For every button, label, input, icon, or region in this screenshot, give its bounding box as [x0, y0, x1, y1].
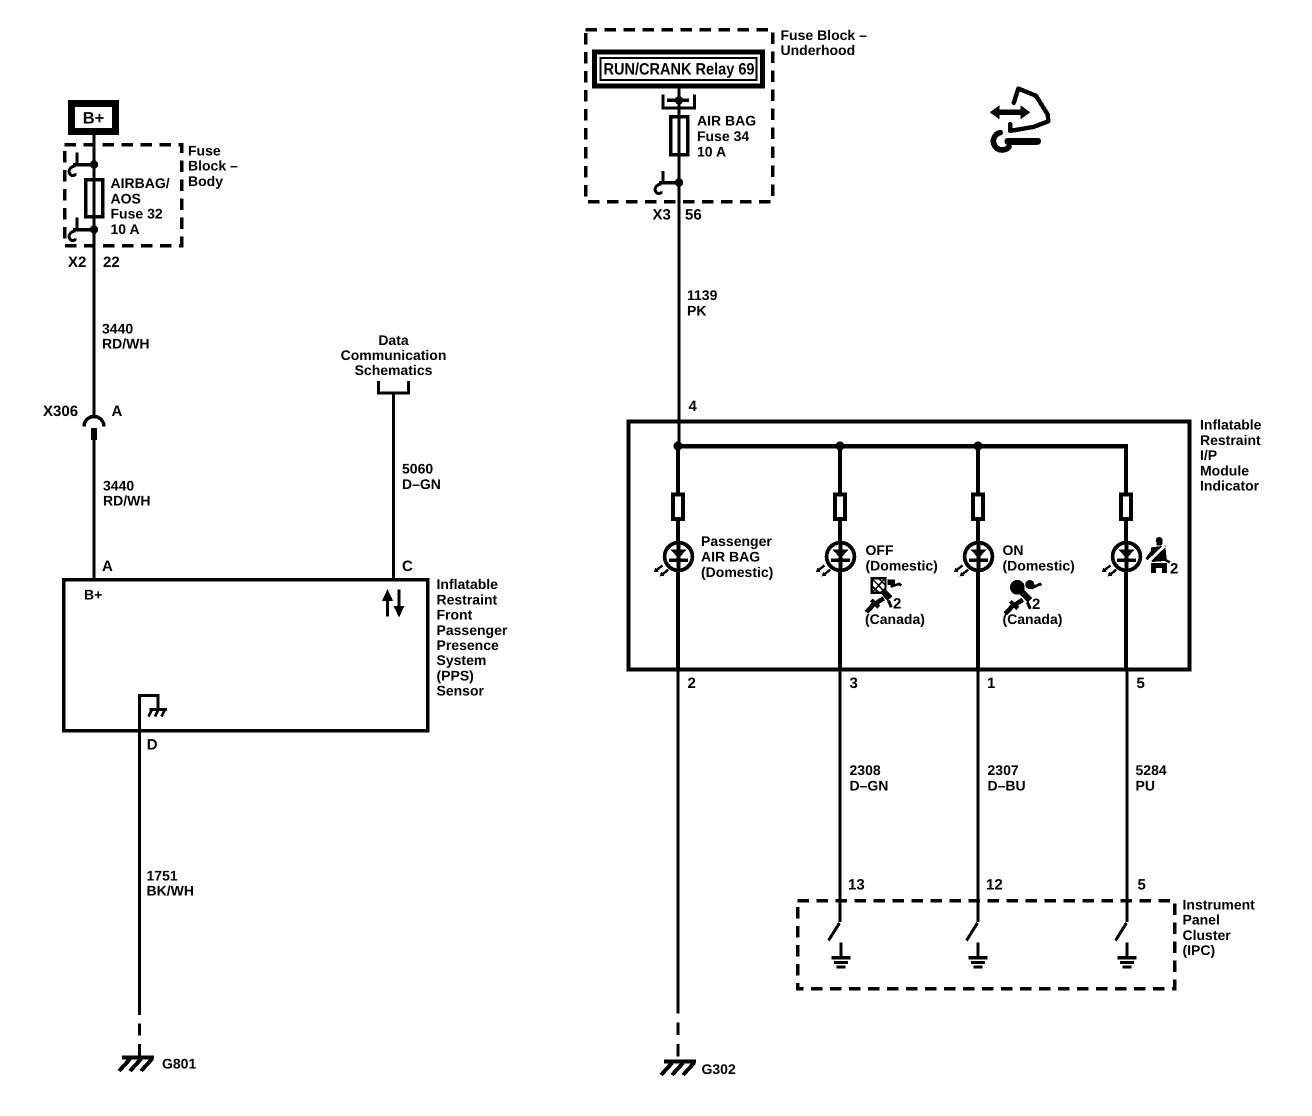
svg-text:AIRBAG/: AIRBAG/	[111, 175, 170, 191]
label ON (Domestic)	[1003, 542, 1075, 574]
svg-text:3440: 3440	[102, 320, 133, 336]
svg-text:(Domestic): (Domestic)	[1003, 558, 1075, 574]
label Passenger AIR BAG (Domestic)	[701, 533, 773, 580]
fuse F34 AIR BAG 10 A	[671, 117, 688, 155]
svg-text:Sensor: Sensor	[437, 683, 485, 699]
wire fuse 34 to X3	[677, 153, 680, 202]
svg-text:3440: 3440	[103, 477, 134, 493]
wire 5284 PU	[1126, 671, 1129, 900]
svg-text:Data: Data	[378, 332, 409, 348]
ground G801	[119, 1056, 196, 1072]
fuse holder clip top (Fuse 34)	[662, 95, 697, 110]
svg-text:(Domestic): (Domestic)	[701, 564, 773, 580]
wire 1751 BK/WH	[138, 731, 141, 1003]
svg-text:X306: X306	[43, 403, 78, 420]
LED indicator lamp (branch 2)	[816, 541, 855, 576]
svg-text:Underhood: Underhood	[781, 42, 856, 58]
svg-text:AOS: AOS	[111, 190, 141, 206]
instrument panel cluster box (dashed)	[798, 901, 1175, 989]
svg-text:PK: PK	[687, 302, 706, 318]
svg-text:12: 12	[986, 876, 1003, 893]
svg-text:D–BU: D–BU	[988, 777, 1026, 793]
svg-text:G801: G801	[162, 1056, 196, 1072]
svg-text:1139: 1139	[687, 287, 718, 303]
svg-text:System: System	[437, 652, 487, 668]
fuse clip bottom (Fuse 32)	[69, 218, 98, 241]
resistor (branch 2)	[835, 494, 845, 519]
svg-text:Schematics: Schematics	[355, 362, 433, 378]
airbag-on pictograph (Canada) branch 3	[1005, 580, 1041, 614]
svg-text:RD/WH: RD/WH	[103, 493, 150, 509]
svg-text:D: D	[147, 737, 158, 754]
svg-text:B+: B+	[83, 110, 105, 128]
driver switch to ground (pin 13)	[829, 900, 851, 967]
svg-text:10 A: 10 A	[697, 144, 726, 160]
battery feed B+ symbol	[72, 104, 116, 132]
fuse block underhood (dashed outline)	[586, 30, 773, 202]
service manual icon (hand with wrench)	[990, 89, 1048, 150]
branch wire 1 (bus to pin 2)	[676, 446, 680, 671]
svg-text:RUN/CRANK Relay 69: RUN/CRANK Relay 69	[604, 61, 755, 79]
svg-text:Module: Module	[1200, 462, 1249, 478]
svg-text:RD/WH: RD/WH	[102, 336, 149, 352]
wire 3440 RD/WH (lower segment)	[93, 440, 96, 579]
svg-text:Restraint: Restraint	[437, 591, 498, 607]
svg-text:A: A	[102, 558, 113, 575]
label OFF (Domestic)	[866, 542, 938, 574]
fuse clip bottom (Fuse 34)	[655, 171, 683, 194]
LED indicator lamp (branch 4)	[1102, 541, 1141, 576]
svg-text:Passenger: Passenger	[701, 533, 772, 549]
svg-text:X3: X3	[653, 206, 671, 223]
svg-text:Passenger: Passenger	[437, 622, 508, 638]
svg-text:(IPC): (IPC)	[1183, 942, 1216, 958]
svg-text:BK/WH: BK/WH	[147, 883, 194, 899]
svg-text:Communication: Communication	[341, 347, 447, 363]
connector X3 pin 56	[653, 206, 702, 223]
wire 2308 D-GN	[839, 671, 842, 900]
branch wire 4 (bus corner to pin 5)	[1124, 444, 1128, 671]
svg-text:AIR BAG: AIR BAG	[701, 549, 760, 565]
connector X2 pin 22	[68, 254, 120, 271]
internal supply bus	[678, 444, 1126, 449]
svg-text:OFF: OFF	[866, 542, 894, 558]
svg-text:I/P: I/P	[1200, 447, 1217, 463]
svg-text:G302: G302	[702, 1061, 736, 1077]
label Inflatable Restraint Front Passenger Presence System (PPS) Sensor	[437, 576, 508, 698]
svg-text:X2: X2	[68, 254, 86, 271]
data communication schematics callout	[341, 332, 447, 393]
seat belt pictograph branch 4	[1147, 537, 1179, 577]
svg-text:Front: Front	[437, 607, 473, 623]
node junction branch2	[836, 442, 845, 451]
wire 2307 D-BU	[977, 671, 980, 900]
resistor (branch 4)	[1121, 494, 1131, 519]
airbag-off pictograph (Canada) branch 2	[866, 578, 901, 612]
wire B+ to fuse block body	[93, 135, 96, 165]
svg-text:Restraint: Restraint	[1200, 432, 1261, 448]
svg-text:Panel: Panel	[1183, 912, 1220, 928]
svg-text:10 A: 10 A	[111, 221, 140, 237]
svg-text:2: 2	[1170, 560, 1178, 577]
svg-text:1: 1	[987, 675, 995, 692]
wire 3440 RD/WH (upper segment)	[93, 230, 96, 417]
wire pin 2 to G302	[676, 671, 679, 1001]
svg-text:(Canada): (Canada)	[865, 611, 925, 627]
serial data arrows (up/down)	[382, 589, 405, 618]
wire 1139 PK	[677, 202, 680, 446]
svg-text:4: 4	[689, 398, 698, 415]
svg-text:5284: 5284	[1136, 762, 1167, 778]
branch wire 2 (bus to pin 3)	[838, 446, 842, 671]
wire relay to fuse 34	[677, 89, 680, 118]
svg-text:AIR BAG: AIR BAG	[697, 113, 756, 129]
driver switch to ground (pin 5)	[1116, 900, 1137, 967]
driver switch to ground (pin 12)	[967, 900, 988, 967]
value label AIRBAG/AOS Fuse 32 10 A	[111, 175, 170, 237]
svg-text:3: 3	[850, 675, 858, 692]
svg-text:(PPS): (PPS)	[437, 667, 474, 683]
svg-text:D–GN: D–GN	[402, 476, 441, 492]
LED indicator lamp (branch 3)	[954, 541, 993, 576]
svg-text:Fuse: Fuse	[188, 143, 221, 159]
svg-text:Indicator: Indicator	[1200, 478, 1260, 494]
svg-text:Cluster: Cluster	[1183, 927, 1232, 943]
svg-text:Body: Body	[188, 173, 223, 189]
svg-text:(Domestic): (Domestic)	[866, 558, 938, 574]
label Inflatable Restraint I/P Module Indicator	[1200, 417, 1262, 494]
fuse clip top (Fuse 32)	[69, 153, 98, 176]
svg-text:PU: PU	[1136, 777, 1155, 793]
node junction branch3	[974, 442, 983, 451]
node junction pin4/branch1	[674, 442, 683, 451]
svg-text:Instrument: Instrument	[1183, 896, 1256, 912]
svg-text:56: 56	[685, 206, 702, 223]
svg-text:C: C	[402, 558, 413, 575]
svg-text:2308: 2308	[850, 762, 881, 778]
relay RUN/CRANK Relay 69	[595, 52, 763, 86]
svg-text:5060: 5060	[402, 461, 433, 477]
svg-text:2: 2	[688, 675, 696, 692]
svg-text:D–GN: D–GN	[850, 777, 889, 793]
label Fuse Block - Underhood	[781, 27, 868, 58]
svg-text:1751: 1751	[147, 867, 178, 883]
svg-text:B+: B+	[84, 587, 102, 603]
resistor (branch 3)	[973, 494, 983, 519]
value label AIR BAG Fuse 34 10 A	[697, 113, 756, 160]
fuse F32 AIRBAG/AOS 10 A	[86, 180, 103, 217]
fuse block body (dashed outline)	[65, 145, 182, 246]
label Fuse Block - Body	[188, 143, 238, 189]
svg-text:A: A	[112, 403, 123, 420]
svg-text:Inflatable: Inflatable	[1200, 417, 1262, 433]
svg-text:13: 13	[848, 876, 865, 893]
wire 5060 D-GN	[392, 395, 395, 580]
internal ground path (PPS sensor)	[140, 696, 168, 731]
ground G302	[661, 1061, 736, 1077]
svg-text:22: 22	[103, 254, 120, 271]
svg-text:Fuse 32: Fuse 32	[111, 206, 163, 222]
PPS sensor box	[64, 580, 428, 731]
module box Inflatable Restraint I/P Module Indicator	[629, 422, 1190, 670]
svg-text:Block –: Block –	[188, 158, 238, 174]
branch wire 3 (bus to pin 1)	[976, 446, 980, 671]
connector X306 pin A	[43, 403, 123, 440]
svg-text:Fuse 34: Fuse 34	[697, 128, 749, 144]
label Instrument Panel Cluster (IPC)	[1183, 896, 1256, 958]
svg-text:(Canada): (Canada)	[1003, 611, 1063, 627]
wire through fuse 32	[93, 165, 96, 231]
svg-text:2307: 2307	[988, 762, 1019, 778]
svg-text:5: 5	[1137, 675, 1145, 692]
LED indicator lamp (branch 1)	[654, 541, 693, 576]
svg-text:Fuse Block –: Fuse Block –	[781, 27, 868, 43]
resistor (branch 1)	[673, 494, 683, 519]
svg-text:Presence: Presence	[437, 637, 499, 653]
svg-text:5: 5	[1138, 876, 1146, 893]
svg-text:Inflatable: Inflatable	[437, 576, 499, 592]
svg-text:ON: ON	[1003, 542, 1024, 558]
